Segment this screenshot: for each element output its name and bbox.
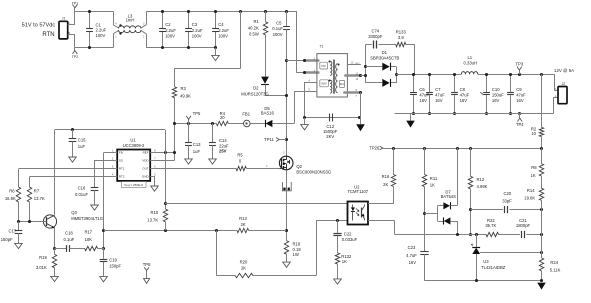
svg-text:0.18: 0.18 (293, 247, 302, 252)
svg-text:J2: J2 (562, 82, 566, 86)
svg-text:BAS16: BAS16 (261, 110, 275, 115)
svg-text:R18: R18 (293, 242, 301, 247)
svg-text:3.01K: 3.01K (36, 265, 47, 270)
svg-text:16V: 16V (516, 98, 524, 103)
svg-text:1mH: 1mH (126, 17, 135, 22)
svg-text:100V: 100V (273, 32, 283, 37)
svg-text:BAT54S: BAT54S (441, 194, 456, 199)
svg-text:freq = 250kHz: freq = 250kHz (124, 183, 143, 187)
svg-text:1K: 1K (342, 259, 347, 264)
svg-text:C10: C10 (492, 87, 500, 92)
svg-text:R14: R14 (527, 188, 535, 193)
svg-text:1uF: 1uF (193, 149, 201, 154)
svg-text:13.7K: 13.7K (34, 196, 45, 201)
svg-text:C19: C19 (109, 258, 117, 263)
svg-text:GND: GND (142, 175, 150, 179)
svg-text:150pF: 150pF (109, 264, 121, 269)
svg-text:49.9K: 49.9K (180, 94, 191, 99)
svg-text:100V: 100V (218, 34, 228, 39)
svg-text:RT2: RT2 (119, 175, 125, 179)
svg-text:C15: C15 (78, 138, 86, 143)
svg-text:0.1uF: 0.1uF (64, 237, 75, 242)
svg-text:SEC: SEC (340, 84, 345, 86)
svg-text:2K: 2K (241, 265, 246, 270)
svg-text:FB1: FB1 (242, 112, 250, 117)
svg-text:R13: R13 (239, 216, 247, 221)
svg-text:C16: C16 (78, 185, 86, 190)
svg-text:12V @ 5A: 12V @ 5A (554, 68, 574, 73)
svg-text:0.033uF: 0.033uF (342, 237, 358, 242)
svg-text:TP2: TP2 (72, 55, 78, 59)
svg-text:C6: C6 (419, 87, 425, 92)
svg-text:C5: C5 (276, 20, 282, 25)
svg-text:R16: R16 (382, 174, 390, 179)
svg-text:R6: R6 (9, 188, 15, 193)
svg-text:16V: 16V (460, 98, 468, 103)
svg-text:2.2uF: 2.2uF (218, 28, 229, 33)
svg-text:R5: R5 (237, 152, 243, 157)
svg-text:2K: 2K (240, 222, 245, 227)
svg-text:C17: C17 (9, 229, 17, 234)
svg-text:R1: R1 (253, 19, 259, 24)
svg-text:2.2uF: 2.2uF (165, 28, 176, 33)
svg-text:REF: REF (143, 151, 149, 155)
svg-text:16V: 16V (409, 260, 417, 265)
svg-text:51V to 57Vdc: 51V to 57Vdc (22, 22, 56, 28)
svg-text:5.11K: 5.11K (550, 268, 561, 273)
svg-text:0.01uF: 0.01uF (75, 192, 88, 197)
svg-text:J1: J1 (62, 16, 66, 20)
svg-text:TP11: TP11 (264, 137, 274, 142)
svg-text:SBR30A45CTB: SBR30A45CTB (370, 56, 399, 61)
svg-text:10: 10 (531, 131, 536, 136)
svg-text:1K: 1K (531, 173, 536, 178)
svg-text:R8: R8 (531, 165, 537, 170)
svg-text:100V: 100V (165, 34, 175, 39)
svg-text:0.5W: 0.5W (249, 31, 259, 36)
svg-text:R24: R24 (550, 260, 558, 265)
svg-text:OUT: OUT (142, 167, 149, 171)
svg-text:1W: 1W (293, 252, 299, 257)
svg-text:150uF: 150uF (492, 92, 504, 97)
svg-text:D2: D2 (253, 85, 259, 90)
svg-text:C13: C13 (193, 142, 201, 147)
svg-text:C9: C9 (516, 87, 522, 92)
svg-text:D1: D1 (382, 50, 388, 55)
svg-text:19.6K: 19.6K (524, 195, 535, 200)
svg-text:100V: 100V (96, 33, 106, 38)
svg-text:R133: R133 (396, 30, 407, 35)
svg-text:1K: 1K (430, 183, 435, 188)
svg-text:C14: C14 (219, 138, 227, 143)
svg-text:R10: R10 (151, 210, 159, 215)
svg-text:47uF: 47uF (460, 92, 470, 97)
svg-text:FB: FB (119, 151, 123, 155)
svg-text:C3: C3 (192, 22, 198, 27)
svg-text:R20: R20 (240, 260, 248, 265)
svg-text:R7: R7 (34, 188, 40, 193)
svg-text:BSC900N20NS3G: BSC900N20NS3G (296, 169, 331, 174)
svg-text:3300pF: 3300pF (368, 34, 383, 39)
svg-text:TP4: TP4 (516, 122, 524, 127)
svg-text:16.9K: 16.9K (5, 196, 16, 201)
svg-text:C4: C4 (218, 22, 224, 27)
svg-text:150pF: 150pF (1, 237, 13, 242)
svg-text:R11: R11 (430, 176, 438, 181)
svg-text:0.33uH: 0.33uH (464, 61, 478, 66)
svg-text:U1: U1 (130, 137, 136, 142)
svg-text:R3: R3 (181, 86, 187, 91)
svg-text:16V: 16V (435, 98, 443, 103)
svg-text:4.7uF: 4.7uF (406, 253, 417, 258)
svg-text:TP26: TP26 (369, 146, 380, 151)
svg-text:47uF: 47uF (516, 92, 526, 97)
svg-text:25V: 25V (219, 149, 227, 154)
svg-text:4.99K: 4.99K (477, 184, 488, 189)
svg-text:TCMT1107: TCMT1107 (347, 189, 368, 194)
svg-text:33pF: 33pF (502, 198, 512, 203)
svg-text:U3: U3 (483, 259, 489, 264)
svg-text:L1: L1 (467, 55, 472, 60)
svg-text:40.2K: 40.2K (248, 25, 259, 30)
svg-text:C2: C2 (165, 22, 171, 27)
svg-text:TP8: TP8 (143, 262, 151, 267)
svg-text:VDD: VDD (142, 159, 149, 163)
svg-text:0.1uF: 0.1uF (272, 26, 283, 31)
svg-text:PRI: PRI (321, 64, 326, 68)
svg-text:SS: SS (119, 159, 123, 163)
svg-text:TP1: TP1 (72, 1, 78, 5)
svg-text:2.2uF: 2.2uF (192, 28, 203, 33)
svg-text:Q2: Q2 (296, 164, 302, 169)
svg-text:R12: R12 (477, 177, 485, 182)
svg-text:20: 20 (220, 115, 225, 120)
svg-text:C18: C18 (65, 230, 73, 235)
svg-text:TP3: TP3 (516, 62, 524, 67)
svg-text:13.7K: 13.7K (147, 218, 158, 223)
svg-text:T1: T1 (319, 44, 323, 48)
svg-text:35.7K: 35.7K (485, 223, 496, 228)
svg-text:UCC3809-2: UCC3809-2 (123, 143, 145, 148)
svg-text:1800pF: 1800pF (516, 223, 531, 228)
svg-text:C20: C20 (503, 191, 511, 196)
svg-text:MURS120T3G: MURS120T3G (241, 91, 268, 96)
svg-text:2.2uF: 2.2uF (96, 28, 107, 33)
svg-text:R19: R19 (39, 255, 47, 260)
svg-text:100V: 100V (192, 34, 202, 39)
svg-text:16V: 16V (492, 98, 500, 103)
svg-text:C23: C23 (408, 245, 416, 250)
svg-text:TL431AIDBZ: TL431AIDBZ (481, 265, 506, 270)
svg-text:R132: R132 (341, 254, 352, 259)
svg-text:Q3: Q3 (71, 210, 77, 215)
svg-text:2KV: 2KV (326, 134, 334, 139)
svg-text:16V: 16V (419, 98, 427, 103)
svg-text:R17: R17 (84, 229, 92, 234)
svg-text:1uF: 1uF (78, 144, 86, 149)
svg-text:BIAS: BIAS (321, 83, 327, 86)
svg-text:MMBT3904LT1G: MMBT3904LT1G (71, 216, 103, 221)
svg-text:C8: C8 (460, 87, 466, 92)
svg-text:RTN: RTN (42, 32, 54, 38)
svg-text:TP5: TP5 (193, 111, 201, 116)
svg-text:RT1: RT1 (119, 167, 125, 171)
svg-text:47uF: 47uF (435, 92, 445, 97)
svg-text:3.9: 3.9 (398, 35, 404, 40)
svg-text:C7: C7 (435, 87, 441, 92)
svg-text:C74: C74 (371, 28, 379, 33)
svg-text:10K: 10K (85, 237, 93, 242)
svg-text:C22: C22 (344, 231, 352, 236)
svg-text:2K: 2K (383, 182, 388, 187)
